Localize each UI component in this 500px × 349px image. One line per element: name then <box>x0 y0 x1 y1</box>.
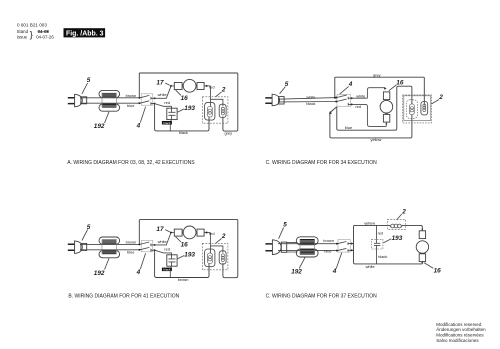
wire brown (plug to switch) <box>80 97 139 99</box>
svg-text:brown: brown <box>178 277 189 282</box>
coil L2 (B) <box>219 251 226 264</box>
svg-text:192: 192 <box>94 123 105 130</box>
arrow into top brush (C37) <box>421 229 423 232</box>
suppression unit 2 (dashed box) <box>202 97 228 123</box>
wire brown plug-switch (C37) <box>278 243 337 245</box>
coil L2 (C34) <box>421 102 428 115</box>
motor 16 (C34) <box>380 92 393 122</box>
suppression unit 2 dashed box (C34) <box>403 95 432 123</box>
svg-text:blue: blue <box>324 248 331 253</box>
suppression unit 2 inner solid box (C34) <box>404 96 431 121</box>
svg-text:16: 16 <box>434 268 442 275</box>
switch 4 <box>138 94 155 105</box>
switch 4 (C37) <box>336 239 353 252</box>
svg-text:grey: grey <box>225 130 233 135</box>
plug 5 prongs (C34) <box>265 98 272 103</box>
svg-text:193: 193 <box>184 105 195 112</box>
wire loop left/top/bottom (C37) <box>352 225 423 264</box>
plug 5 body (C34) <box>272 94 280 106</box>
choke 192 (B) <box>99 237 120 258</box>
svg-text:193: 193 <box>184 251 195 258</box>
wire white switch-to-brush (C34) <box>352 88 385 99</box>
svg-text:grey: grey <box>373 72 381 77</box>
svg-text:17: 17 <box>156 79 164 86</box>
svg-text:192: 192 <box>291 269 302 276</box>
svg-text:192: 192 <box>94 270 105 277</box>
header Stand/Issue block <box>17 29 55 39</box>
svg-text:red: red <box>209 231 215 236</box>
wire blue plug-switch (C37) <box>278 250 337 252</box>
svg-text:A. WIRING DIAGRAM FOR 03, 08,: A. WIRING DIAGRAM FOR 03, 08, 32, 42 EXE… <box>67 160 195 166</box>
coil L2 <box>219 104 226 117</box>
svg-text:red: red <box>378 230 384 235</box>
wire blue (plug to switch) <box>80 102 139 104</box>
wire yellow continuation to motor (C37) <box>406 225 423 229</box>
wire white plug-switch (C34) <box>278 98 336 100</box>
wire red (switch to capacitor) <box>155 104 172 109</box>
wire red to capacitor (B) <box>155 250 172 255</box>
plug 5 body (B) <box>75 241 83 254</box>
wire blue plug-switch (B) <box>80 249 139 251</box>
node 17 junction (B) <box>171 232 175 234</box>
wire grey (coil2 over the top to switch) (C34) <box>335 77 425 105</box>
svg-text:Modifications réservées: Modifications réservées <box>436 333 484 338</box>
wire blue (switch down and around to coil1 top) (C34) <box>337 86 412 130</box>
svg-text:4: 4 <box>136 269 141 276</box>
svg-text:17: 17 <box>156 226 164 233</box>
svg-text:white: white <box>366 264 375 269</box>
wire bottom brush to white wire (C37) <box>421 262 423 264</box>
svg-text:16: 16 <box>181 242 189 249</box>
arrow on yellow wire (C34) <box>329 111 332 114</box>
cable sheath plug-choke (C37) <box>287 242 298 252</box>
svg-text:}: } <box>30 29 33 39</box>
wire red switch-to-brush (C34) <box>352 104 387 126</box>
svg-text:yellow: yellow <box>364 220 375 225</box>
arrow into top brush (C34) <box>384 87 387 90</box>
wire black (switch to coil1) <box>155 104 209 131</box>
node red junction (B) <box>204 232 210 234</box>
svg-text:Modifications reserved: Modifications reserved <box>436 322 482 327</box>
wire black plug-switch (C34) <box>278 101 336 103</box>
plug 5 prongs <box>68 98 75 104</box>
wire white (switch to brush) <box>155 86 171 98</box>
svg-text:brown: brown <box>126 93 137 98</box>
svg-text:black: black <box>163 121 171 125</box>
capacitor bottom lead <box>169 120 172 131</box>
svg-text:red: red <box>164 100 170 105</box>
svg-text:black: black <box>306 101 315 106</box>
svg-text:16: 16 <box>181 95 189 102</box>
svg-text:193: 193 <box>392 235 403 242</box>
svg-text:4: 4 <box>136 122 141 129</box>
svg-text:Issue: Issue <box>17 35 28 40</box>
svg-text:brown: brown <box>323 238 334 243</box>
svg-text:black: black <box>179 130 188 135</box>
coil L1 <box>205 102 215 120</box>
footer modifications text <box>436 322 486 343</box>
capacitor 193 (C37, dashed) <box>371 239 383 249</box>
svg-text:blue: blue <box>345 125 352 130</box>
choke 192 (C37) <box>296 237 318 257</box>
plug 5 prongs (C37) <box>265 244 272 251</box>
svg-text:red: red <box>164 247 170 252</box>
wire brown bottom (switch to coil1) (B) <box>155 250 209 277</box>
svg-text:black: black <box>378 254 387 259</box>
svg-text:2: 2 <box>221 233 226 240</box>
svg-text:B. WIRING DIAGRAM FOR FOR 41 E: B. WIRING DIAGRAM FOR FOR 41 EXECUTION <box>68 294 179 300</box>
arrow out of bottom brush (C37) <box>421 261 423 264</box>
svg-text:Änderungen vorbehalten: Änderungen vorbehalten <box>436 326 486 332</box>
svg-text:04-07-26: 04-07-26 <box>36 35 54 40</box>
capacitor 193 (B) <box>167 255 177 266</box>
switch 4 (C34) <box>335 94 352 106</box>
arrow into bottom brush (C34) <box>385 122 387 125</box>
svg-text:white: white <box>356 94 365 99</box>
wire grey (housing loop: coil2 to plug entry) <box>139 73 238 131</box>
svg-text:04-08: 04-08 <box>38 29 50 34</box>
svg-text:C. WIRING DIAGRAM FOR FOR 37 E: C. WIRING DIAGRAM FOR FOR 37 EXECUTION <box>266 294 378 300</box>
svg-text:white: white <box>306 94 315 99</box>
plug 5 body <box>75 94 83 107</box>
svg-text:white: white <box>158 239 167 244</box>
node 17 (junction dot + brush lead) <box>171 85 175 87</box>
svg-text:black: black <box>163 267 171 271</box>
svg-text:2: 2 <box>221 87 226 94</box>
suppression coil 2 box (C37) <box>387 220 405 230</box>
label black (inverted box) <box>162 121 172 125</box>
capacitor bottom lead (C37) <box>376 249 378 264</box>
coil L1 (C34) <box>406 100 417 119</box>
label black inverted (B) <box>162 267 172 271</box>
motor 16 (brushes + armature) <box>174 79 204 92</box>
wire red descent (B) <box>210 233 223 254</box>
svg-text:blue: blue <box>127 103 134 108</box>
svg-text:red: red <box>209 84 215 89</box>
coil L1 (B) <box>205 249 215 267</box>
wire housing loop coil2 to plug entry (B) <box>139 220 238 278</box>
wire red descent to coils <box>210 86 223 107</box>
wire yellow (coil1 bottom around to switch) (C34) <box>330 107 412 138</box>
svg-text:2: 2 <box>401 209 406 216</box>
svg-text:0 601 B21 003: 0 601 B21 003 <box>17 23 47 28</box>
svg-text:white: white <box>158 92 167 97</box>
svg-text:Stand: Stand <box>17 29 29 34</box>
plug 5 prongs (B) <box>68 244 75 250</box>
node red (brush lead + dot) <box>204 85 210 87</box>
capacitor bottom lead (B) <box>169 266 172 277</box>
motor 16 (B) <box>174 226 204 239</box>
motor 16 (C37) <box>416 231 428 262</box>
Fig./Abb. black title box <box>64 28 106 37</box>
plug 5 body (C37) <box>272 240 281 255</box>
svg-text:blue: blue <box>127 249 134 254</box>
choke 192 <box>99 90 120 111</box>
wire white (B) <box>155 233 171 245</box>
svg-text:2: 2 <box>438 94 443 101</box>
switch 4 (B) <box>138 240 155 251</box>
wire red to capacitor (C37) <box>376 225 378 239</box>
svg-text:Salvo modificaciones: Salvo modificaciones <box>436 338 479 343</box>
svg-text:C. WIRING DIAGRAM FOR FOR 34 E: C. WIRING DIAGRAM FOR FOR 34 EXECUTION <box>266 160 378 166</box>
capacitor 193 <box>167 108 177 119</box>
svg-text:Fig. /Abb. 3: Fig. /Abb. 3 <box>66 29 104 38</box>
svg-text:yellow: yellow <box>371 137 382 142</box>
svg-text:16: 16 <box>396 80 404 87</box>
svg-text:4: 4 <box>332 268 337 275</box>
wire brown plug-switch (B) <box>80 243 139 245</box>
svg-text:brown: brown <box>126 240 137 245</box>
svg-text:red: red <box>355 104 361 109</box>
suppression unit 2 dashed box (B) <box>202 243 228 269</box>
